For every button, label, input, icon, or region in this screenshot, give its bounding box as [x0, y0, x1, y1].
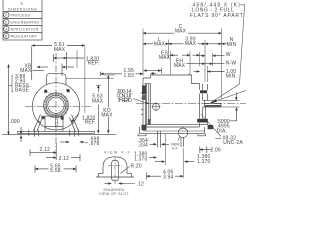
- through-bolt mark lower-right: [61, 116, 64, 119]
- floor line: [2, 134, 116, 136]
- svg-text:3.94: 3.94: [163, 174, 173, 180]
- svg-text:FLATS 90° APART: FLATS 90° APART: [190, 13, 243, 19]
- dim KO MAX vertical: [107, 75, 109, 107]
- svg-text:REGULATORY: REGULATORY: [11, 35, 38, 39]
- svg-text:X-X: X-X: [172, 147, 178, 151]
- KO top tick: [103, 74, 114, 76]
- right resilient ring: [199, 84, 201, 91]
- dim 1.380 1.370 right: [155, 161, 165, 163]
- svg-text:R.20: R.20: [131, 163, 142, 169]
- shaft: [203, 99, 208, 101]
- side view body outline: [143, 75, 200, 84]
- svg-text:THREAD: THREAD: [118, 98, 133, 104]
- shaft bore circle: [48, 97, 64, 113]
- svg-text:N-W: N-W: [226, 61, 237, 67]
- dim row L / 3.90 / N: [154, 37, 237, 48]
- svg-text:2.12: 2.12: [40, 147, 50, 153]
- left mounting studs: [29, 129, 39, 136]
- svg-text:&: &: [21, 2, 24, 6]
- svg-text:UNC-2A: UNC-2A: [223, 140, 243, 146]
- svg-text:MAX: MAX: [54, 47, 66, 53]
- svg-text:MAX: MAX: [159, 55, 171, 61]
- svg-text:MIN.: MIN.: [226, 74, 237, 80]
- enlarged slot view label: [104, 151, 130, 155]
- shaft extension lines: [208, 99, 240, 101]
- svg-text:R: R: [5, 34, 8, 38]
- slot centerline: [114, 158, 116, 185]
- base pads: [138, 134, 146, 136]
- dim .354 .334: [138, 138, 148, 149]
- svg-text:REF.: REF.: [85, 120, 97, 126]
- dim 4.06 3.94: [146, 173, 148, 180]
- dim 2.12 second: [46, 157, 56, 159]
- svg-text:.678: .678: [89, 141, 99, 147]
- top dome lifting bump: [46, 74, 66, 85]
- dim 2.06: [199, 146, 201, 153]
- shaft shoulder: [204, 100, 206, 107]
- right mounting studs: [70, 129, 79, 136]
- enlarged view caption: [99, 188, 130, 196]
- dim W row: [200, 55, 205, 57]
- XB MAX label: [20, 63, 32, 74]
- flats note leader: [214, 5, 245, 101]
- detail balloon circle: [178, 128, 188, 138]
- cradle arm right: [70, 115, 79, 131]
- through-bolt mark lower-left: [41, 116, 44, 119]
- left flange ticks: [141, 92, 143, 94]
- dim 5.61 MAX: [31, 47, 33, 81]
- slot .12 dim: [105, 183, 112, 185]
- dim C MAX: [143, 32, 174, 34]
- svg-text:2.12: 2.12: [59, 156, 69, 162]
- conduit thread label: [117, 89, 133, 104]
- svg-text:MAX: MAX: [185, 41, 197, 47]
- svg-text:1.83: 1.83: [124, 73, 134, 79]
- svg-text:.12: .12: [137, 182, 145, 188]
- svg-text:MAX: MAX: [154, 41, 166, 47]
- stud 1 below base: [157, 131, 159, 148]
- hub hatched ring: [44, 93, 69, 118]
- svg-text:REF.: REF.: [88, 61, 100, 67]
- slot detail outline: [99, 157, 132, 177]
- svg-text:MIN: MIN: [227, 42, 237, 48]
- svg-text:2.06: 2.06: [211, 148, 221, 154]
- hub inner circle: [46, 95, 66, 115]
- side view horizontal centerline: [136, 103, 246, 105]
- svg-text:1.370: 1.370: [197, 159, 210, 165]
- dim 2.12 first: [29, 149, 31, 156]
- svg-text:MAX: MAX: [175, 29, 187, 35]
- through-bolt mark upper-right: [67, 89, 70, 92]
- slot capsule: [112, 160, 119, 181]
- slot R.20 leader: [121, 166, 130, 173]
- hub ring hatch ticks: [44, 92, 69, 118]
- shaft flat: [208, 102, 222, 104]
- #8-32 tapped hole label: [223, 135, 244, 146]
- end view: vertical centerline: [55, 53, 57, 160]
- dim .698 .678: [60, 141, 69, 143]
- svg-text:DIMENSIONS: DIMENSIONS: [8, 7, 37, 11]
- dim 1.00 MIN row: [194, 71, 200, 73]
- svg-text:MAX: MAX: [101, 112, 113, 118]
- dim 1.820 REF bottom: [82, 115, 96, 125]
- hub hatched ring shading: [45, 94, 67, 116]
- svg-text:.334: .334: [138, 142, 148, 148]
- svg-text:VIEW OF SLOT: VIEW OF SLOT: [99, 192, 130, 196]
- dim 1.95 1.83 between views: [124, 68, 134, 79]
- small dim row y67: [37, 66, 48, 68]
- shaft flats note: [190, 2, 243, 18]
- cradle arm left: [34, 115, 43, 131]
- conduit hole circle: [153, 103, 160, 110]
- resilient base plate: [18, 130, 95, 132]
- end view: horizontal centerline: [25, 106, 91, 108]
- stud 2 below base: [180, 137, 182, 147]
- svg-text:PROCESS: PROCESS: [11, 14, 31, 18]
- through-bolt mark upper-left: [44, 90, 47, 93]
- svg-text:5.58: 5.58: [50, 168, 60, 174]
- dim .5000 .4995 DIA: [235, 93, 237, 101]
- revision table: [3, 0, 42, 40]
- dim 1.820 REF top: [53, 54, 55, 62]
- svg-text:P: P: [5, 13, 7, 17]
- svg-text:E: E: [5, 20, 7, 24]
- svg-text:MAX: MAX: [92, 99, 104, 105]
- dome base extension line: [66, 77, 114, 79]
- 3.88 2.94 RESIL BASE label: [15, 74, 32, 94]
- dim 5.63 MAX vertical: [96, 84, 101, 86]
- left resilient ring: [145, 83, 152, 85]
- dim ES MAX: [159, 50, 171, 61]
- svg-text:APPLICATION: APPLICATION: [11, 28, 39, 32]
- dim 1.380 1.370 left: [134, 152, 147, 163]
- svg-text:1.370: 1.370: [134, 156, 147, 162]
- dim N-W row: [187, 63, 206, 65]
- svg-text:W: W: [226, 52, 231, 58]
- left vertical dim line: [8, 65, 10, 135]
- svg-text:ENGINEERING: ENGINEERING: [11, 21, 40, 25]
- dim .090: [9, 119, 19, 125]
- svg-text:BASE: BASE: [15, 88, 30, 94]
- svg-text:VIEW X-X: VIEW X-X: [104, 151, 130, 155]
- dim 5.65 5.58: [34, 165, 36, 172]
- ext lines: [142, 29, 144, 77]
- terminal box on end view: [45, 116, 63, 127]
- side view base: [139, 127, 141, 134]
- slot bottom line: [96, 176, 134, 178]
- svg-text:A: A: [5, 27, 8, 31]
- dim EH MAX: [174, 59, 186, 70]
- svg-text:MAX: MAX: [174, 63, 186, 69]
- slot horizontal centerline: [108, 165, 122, 167]
- motor shell outer circle: [32, 83, 79, 130]
- svg-text:.090: .090: [9, 119, 19, 125]
